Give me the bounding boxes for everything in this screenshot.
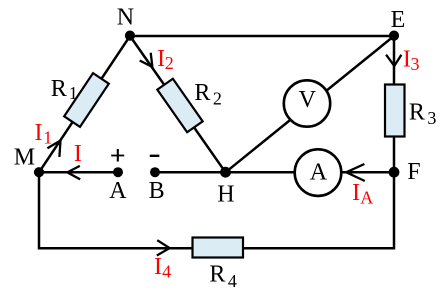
svg-text:N: N: [117, 5, 134, 31]
node F: [389, 167, 400, 178]
resistor R3: [385, 85, 405, 137]
terminal A: [113, 167, 123, 177]
wire M-N: [39, 36, 130, 172]
ammeter A: [295, 149, 342, 196]
resistor R2: [157, 79, 202, 132]
wire N-H: [130, 36, 226, 172]
svg-text:I4: I4: [154, 254, 171, 282]
svg-text:H: H: [217, 182, 234, 208]
node N: [125, 30, 135, 40]
node E: [389, 30, 399, 40]
svg-text:R3: R3: [409, 99, 437, 128]
svg-text:V: V: [299, 87, 317, 113]
plus sign: [111, 149, 124, 162]
voltmeter V: [284, 80, 330, 126]
svg-text:F: F: [407, 159, 420, 185]
wire M-A: [39, 171, 118, 174]
wire N-E top: [130, 35, 394, 38]
svg-text:E: E: [391, 7, 406, 33]
arrow IA: [346, 164, 365, 181]
wire E-F: [393, 36, 396, 172]
svg-text:IA: IA: [352, 180, 373, 208]
arrow I4: [157, 240, 170, 255]
svg-text:I2: I2: [157, 46, 174, 73]
minus sign: [150, 155, 160, 157]
svg-text:I: I: [74, 141, 82, 167]
node H: [220, 167, 231, 178]
wire H-F: [226, 171, 395, 174]
svg-text:A: A: [109, 178, 127, 204]
svg-text:A: A: [310, 159, 328, 185]
svg-text:I3: I3: [403, 47, 420, 74]
svg-text:B: B: [149, 178, 165, 204]
arrow I3: [386, 55, 401, 66]
arrow I2: [140, 53, 153, 67]
wire B-H: [155, 171, 226, 174]
wire E-H: [226, 36, 395, 172]
wire M-down-bottom-F-up U path: [39, 172, 394, 248]
arrow I1: [47, 141, 60, 157]
resistor R1: [64, 73, 109, 127]
resistor R4: [193, 238, 244, 258]
svg-text:R1: R1: [51, 76, 78, 103]
svg-text:R4: R4: [209, 262, 237, 291]
svg-text:I1: I1: [35, 120, 53, 148]
terminal B: [150, 167, 160, 177]
svg-text:R2: R2: [194, 80, 222, 109]
node M: [34, 167, 44, 177]
svg-text:M: M: [14, 145, 35, 171]
arrow I on M-A wire: [67, 166, 80, 180]
